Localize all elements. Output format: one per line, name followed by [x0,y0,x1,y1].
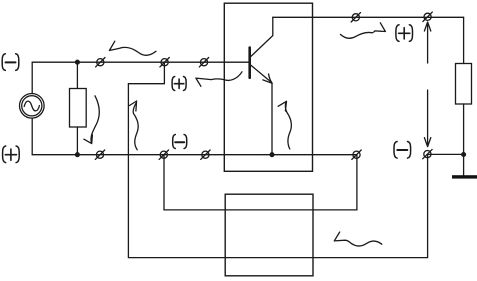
wire top-left horizontal (input minus rail) [32,61,248,63]
wire R2 bottom to ground [463,104,465,175]
wire emitter vertical [271,83,273,155]
ground [452,175,477,178]
hand arrow feedback bottom [334,232,382,246]
source V1 (AC) [20,94,45,119]
wire left vertical source bottom [31,118,33,155]
arrow output minus down [424,90,430,147]
label (minus) output bottom [394,142,411,159]
hand arrow R1 current [84,96,99,144]
wire left vertical to source top [31,62,33,93]
hand arrow input top [109,41,156,55]
terminal bottom 4 [352,150,361,159]
wire right vertical to R2 [463,17,465,63]
wire inner feedback loop [164,155,357,210]
feedback block box [225,194,313,276]
wire R1 bottom lead [76,127,78,155]
node junction output bottom [462,153,466,157]
label (plus) base [172,77,186,91]
terminal top 2 [160,58,169,67]
wire R1 top lead [76,62,78,88]
terminal top 1 [96,58,105,67]
transistor Q1 base bar [248,48,251,78]
wire output top horizontal [273,16,464,18]
hand arrow output right [340,23,385,38]
terminal bottom 1 [95,150,104,159]
amplifier block box [224,3,312,171]
terminal output 2 [423,12,432,21]
label (plus) input bottom [3,146,20,163]
terminal output 1 [351,13,360,22]
terminal bottom-right [423,149,432,158]
node junction R1 top [76,60,80,64]
hand arrow base left [196,72,242,87]
node junction emitter [270,153,274,157]
wire outer feedback loop [128,62,427,257]
resistor R1 [70,89,87,128]
wire bottom horizontal (input plus rail) [32,154,356,156]
label (minus) input top [2,54,19,71]
transistor Q1 emitter with arrow [251,65,272,83]
resistor R2 [456,64,472,105]
transistor Q1 collector [251,17,273,56]
label (minus) mid [173,135,187,149]
hand arrow emitter up [278,101,291,149]
arrow output plus up [424,22,430,63]
terminal bottom 2 [159,150,168,159]
terminal top 3 [199,58,208,67]
label (plus) output top [396,25,413,42]
terminal bottom 3 [201,150,210,159]
hand arrow feedback left up [130,101,139,150]
node junction R1 bottom [76,153,80,157]
wire bottom-right horizontal [428,153,464,155]
